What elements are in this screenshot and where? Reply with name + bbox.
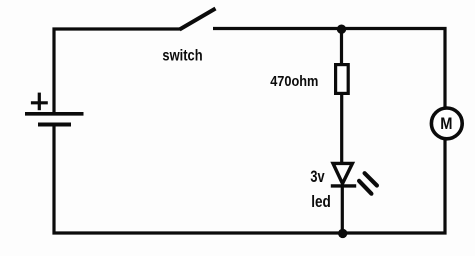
svg-text:led: led [311,193,331,211]
svg-text:switch: switch [162,48,202,65]
svg-text:470ohm: 470ohm [270,73,318,90]
svg-text:M: M [440,115,452,133]
svg-text:3v: 3v [310,167,325,186]
